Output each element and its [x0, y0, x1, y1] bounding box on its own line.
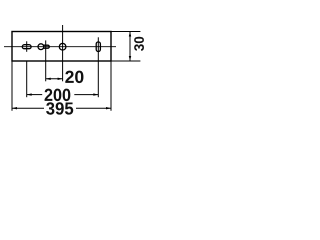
vertical centerline through slot S2 / extension line (dim 200 right): [97, 37, 99, 97]
arrow 200 left: [27, 93, 32, 95]
arrow 395 left: [12, 107, 17, 109]
extension line from keyhole (dim 20 left): [45, 40, 47, 81]
dimension line 200 right segment: [74, 94, 98, 96]
vertical centerline through circle / extension line (dim 20 right): [62, 25, 64, 81]
arrow 200 right: [93, 93, 98, 95]
bracket outline rectangle: [12, 32, 111, 62]
label 200: [45, 89, 71, 101]
dimension line 20: [46, 78, 63, 80]
vertical slot S2 (obround): [96, 42, 100, 52]
extension line bottom (dim 30): [111, 60, 140, 62]
dimension line 200 left segment: [27, 94, 43, 96]
slot S1 center tick: [26, 41, 28, 52]
label 20: [65, 71, 83, 83]
extension line top (dim 30): [111, 31, 140, 33]
label 30 (rotated): [134, 37, 144, 51]
dimension line 395 right segment: [76, 107, 111, 109]
arrow 30 bottom: [129, 56, 131, 61]
dimension line 30: [129, 32, 131, 62]
label 395: [46, 102, 73, 114]
extension line left (dim 200) from slot S1: [26, 61, 28, 97]
extension line right (dim 395) below rect right edge: [110, 61, 112, 111]
arrow 20 right: [58, 78, 63, 80]
keyhole K1 slot part: [43, 45, 49, 48]
arrow 395 right: [106, 107, 111, 109]
horizontal centerline: [4, 46, 116, 48]
arrow 20 left: [46, 78, 51, 80]
circle hole H1: [59, 43, 66, 50]
dimension line 395 left segment: [12, 107, 44, 109]
arrow 30 top: [129, 32, 131, 37]
extension line left (dim 395) below rect left edge: [11, 61, 13, 111]
slot S1 (obround mounting slot): [22, 45, 31, 49]
keyhole K1 circle part: [38, 44, 44, 50]
